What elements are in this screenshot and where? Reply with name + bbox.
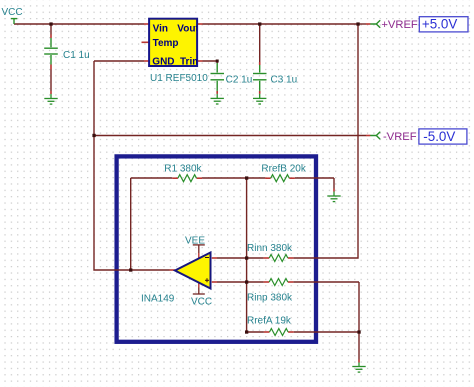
svg-text:Rinn 380k: Rinn 380k	[247, 243, 293, 254]
svg-text:INA149: INA149	[141, 293, 175, 304]
svg-text:Vin: Vin	[153, 24, 168, 35]
svg-text:U1 REF5010: U1 REF5010	[150, 73, 208, 84]
svg-text:VCC: VCC	[191, 297, 212, 308]
svg-text:Temp: Temp	[153, 38, 179, 49]
svg-text:Rinp 380k: Rinp 380k	[247, 293, 293, 304]
svg-text:VCC: VCC	[2, 7, 23, 18]
svg-text:Vout: Vout	[177, 24, 199, 35]
svg-text:RrefB 20k: RrefB 20k	[261, 164, 306, 175]
svg-text:C2 1u: C2 1u	[226, 75, 253, 86]
svg-text:C3 1u: C3 1u	[271, 75, 298, 86]
svg-text:+VREF: +VREF	[381, 19, 418, 31]
svg-text:VEE: VEE	[185, 235, 205, 246]
svg-text:-VREF: -VREF	[383, 131, 417, 143]
svg-text:RrefA 19k: RrefA 19k	[247, 315, 292, 326]
svg-text:-5.0V: -5.0V	[423, 129, 455, 144]
svg-text:+5.0V: +5.0V	[422, 17, 457, 32]
svg-text:R1 380k: R1 380k	[164, 164, 202, 175]
svg-text:GND: GND	[152, 57, 174, 68]
svg-text:C1 1u: C1 1u	[63, 50, 90, 61]
